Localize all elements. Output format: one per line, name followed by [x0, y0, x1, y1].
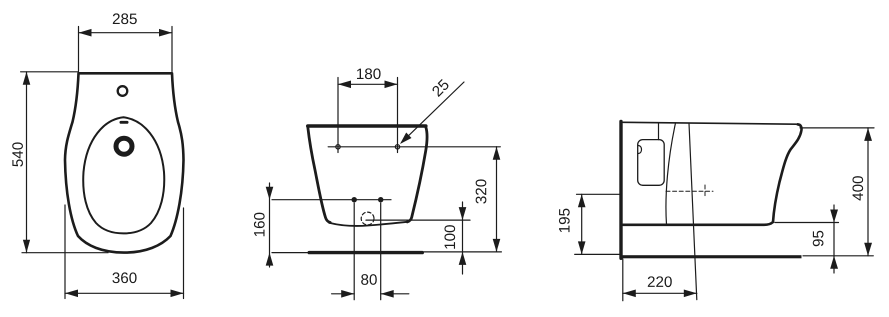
dim 180 arrow left [338, 81, 351, 89]
fixing holes line [328, 146, 500, 148]
drain hole [116, 138, 132, 154]
dim 540 arrow down [23, 240, 30, 253]
dim 285 arrow left [79, 29, 92, 37]
dim 195 arrow down [578, 241, 586, 254]
dim 320 line [496, 147, 498, 252]
front rim top bar [308, 124, 426, 128]
dim 285 extension lines [79, 27, 173, 72]
dim 320 arrow down [493, 239, 501, 252]
bolt dot right [378, 197, 383, 202]
top view inner basin [83, 117, 164, 233]
dim 360 line [65, 292, 184, 294]
dim 80 arrow right (outside) [381, 290, 394, 298]
dim 95 text [813, 231, 824, 247]
dim 100 text [444, 225, 455, 249]
dashed center line horizontal [666, 190, 713, 192]
front bowl bottom edge [329, 222, 408, 226]
dim 100 arrow top (outside) [459, 207, 467, 220]
dim 400 text [852, 176, 863, 200]
dim 100 extension line top [366, 219, 470, 221]
dim 220 extension lines [622, 259, 624, 301]
dim 100 arrow bottom (outside) [459, 252, 467, 265]
dim 285 arrow right [159, 29, 172, 37]
dim 400 line [867, 128, 869, 256]
dim 95 arrow top (outside) [830, 210, 838, 223]
side view front profile curve [773, 124, 802, 222]
dim 220 arrow right [684, 290, 697, 298]
dim 160 line [269, 183, 271, 267]
dim 160 arrow top (outside) [266, 187, 274, 200]
dim 195 extension lines [575, 194, 620, 254]
dim 400 arrow up [864, 128, 872, 141]
drain vertical line [689, 123, 697, 299]
dim 160 arrow bottom (outside) [266, 253, 274, 266]
base plate bar front view [308, 251, 425, 254]
dim 80 extension lines [354, 203, 381, 300]
dim 195 arrow up [578, 194, 586, 207]
dim 400 arrow down [864, 243, 872, 256]
dim 80 line right tail [381, 293, 409, 295]
leader 25 arrowhead [400, 133, 412, 145]
dim 100 line [462, 202, 464, 274]
dim 195 text [559, 209, 570, 233]
dim 400 extension line top [800, 127, 874, 129]
dim 360 extension lines [65, 205, 184, 299]
leader line 25 [402, 82, 465, 143]
bracket top connector line [658, 123, 660, 140]
dim 285 line [79, 32, 173, 34]
dim 180 line [338, 83, 398, 85]
overflow slot [120, 121, 129, 124]
bracket notch [639, 146, 642, 154]
dim 80 line left tail [332, 293, 355, 295]
dim 80 arrow left (outside) [341, 290, 354, 298]
dim 160 text [254, 213, 265, 237]
dim 95 arrow bottom (outside) [830, 256, 838, 269]
front bowl right edge [407, 127, 427, 222]
dim 220 text [648, 276, 672, 287]
dim 320 arrow up [493, 147, 501, 160]
right fixing hole [395, 145, 399, 149]
dim 195 line [581, 194, 583, 254]
dashed center line vertical [704, 185, 706, 198]
dim 180 arrow right [385, 81, 398, 89]
leader 25 text [431, 79, 450, 98]
dim 540 arrow up [23, 72, 31, 85]
fixing bracket rectangle [638, 140, 665, 186]
tap hole [118, 86, 128, 96]
inner bowl silhouette line [666, 123, 676, 225]
dim 220 line [623, 292, 697, 294]
drain dashed circle [361, 212, 374, 225]
dim 285 text [113, 13, 137, 24]
bolt dots line [272, 199, 391, 201]
dim 360 text [112, 272, 136, 283]
side view back wall line [619, 122, 622, 259]
dim 95 extension lines [775, 223, 873, 256]
dim 80 text [361, 274, 377, 285]
side view body bottom line [623, 222, 773, 225]
dim 540 extension lines [21, 72, 108, 253]
dim 540 line [26, 72, 28, 253]
dim 320 text [476, 179, 487, 203]
side view base plate bar [620, 255, 802, 258]
dim 220 arrow left [623, 290, 636, 298]
left fixing hole [336, 145, 340, 149]
bolt dot left [352, 197, 357, 202]
front bowl left edge [308, 127, 330, 223]
side view top edge [623, 122, 796, 124]
dim 360 arrow left [65, 290, 78, 298]
dim 160 extension line bottom [272, 252, 309, 254]
dim 95 line [833, 205, 835, 273]
dim 180 text [357, 68, 381, 79]
top view outer rim [65, 73, 184, 252]
dim 320 extension line bottom [424, 251, 501, 253]
dim 540 text [12, 142, 23, 166]
dim 180 extension lines [338, 78, 398, 153]
dim 360 arrow right [171, 290, 184, 298]
